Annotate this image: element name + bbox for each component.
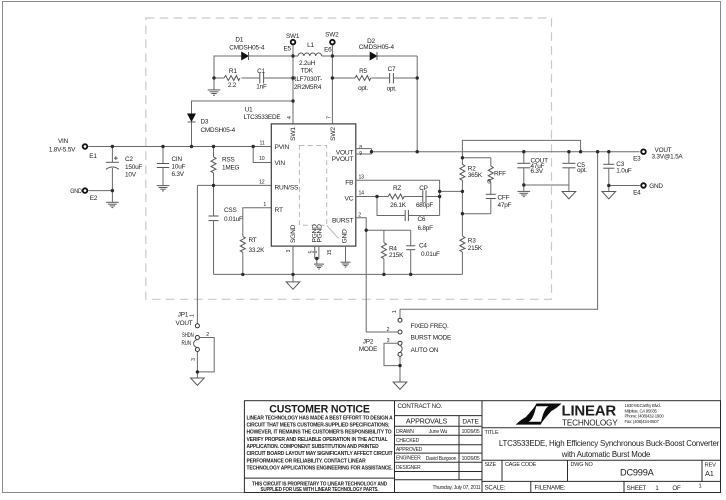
svg-text:14: 14 <box>359 191 365 197</box>
svg-text:4: 4 <box>287 116 293 119</box>
svg-text:10uF: 10uF <box>172 164 186 171</box>
svg-text:R1: R1 <box>229 68 237 75</box>
svg-text:2R2M5R4: 2R2M5R4 <box>294 84 322 91</box>
svg-text:REV: REV <box>705 463 717 469</box>
capacitor CP 680pF <box>416 185 440 209</box>
svg-text:CMDSH05-4: CMDSH05-4 <box>359 44 395 51</box>
svg-text:TECHNOLOGY APPLICATIONS ENGINE: TECHNOLOGY APPLICATIONS ENGINEERING FOR … <box>247 466 393 472</box>
capacitor COUT 47uF 6.3V <box>517 152 548 185</box>
svg-text:L1: L1 <box>307 42 314 49</box>
wire: RT pin line <box>243 208 271 237</box>
svg-text:with Automatic Burst Mode: with Automatic Burst Mode <box>561 450 651 459</box>
svg-text:0.01uF: 0.01uF <box>421 251 440 258</box>
svg-text:10/26/05: 10/26/05 <box>462 456 480 462</box>
capacitor C1 1nF <box>256 68 267 91</box>
wire: RUN/SS line y=185.4 <box>197 184 271 186</box>
svg-text:APPROVED: APPROVED <box>396 447 423 453</box>
diode D2 CMDSH05-4 <box>332 38 417 60</box>
ground (triangle) below C3 <box>602 186 616 199</box>
svg-text:SUPPLIED FOR USE WITH LINEAR T: SUPPLIED FOR USE WITH LINEAR TECHNOLOGY … <box>261 487 379 493</box>
ground (earth) below COUT <box>518 185 531 197</box>
U1 exposed pad dashed outline <box>299 146 338 239</box>
test point E6 / SW2 <box>324 32 339 124</box>
svg-text:APPLICATION. COMPONENT SUBSTI: APPLICATION. COMPONENT SUBSTITUTION AND … <box>247 444 379 450</box>
svg-text:June Wu: June Wu <box>429 429 448 435</box>
svg-text:1: 1 <box>655 486 659 492</box>
svg-text:1MEG: 1MEG <box>222 165 240 172</box>
svg-text:SW1: SW1 <box>286 33 300 40</box>
svg-text:D1: D1 <box>235 37 243 44</box>
diode D3 CMDSH05-4 <box>188 114 236 147</box>
svg-text:TECHNOLOGY: TECHNOLOGY <box>562 418 618 427</box>
svg-text:CIRCUIT THAT MEETS CUSTOMER-SU: CIRCUIT THAT MEETS CUSTOMER-SUPPLIED SPE… <box>247 423 390 429</box>
svg-text:ENGINEER: ENGINEER <box>396 456 421 462</box>
svg-text:CP: CP <box>419 185 427 192</box>
svg-text:E5: E5 <box>283 46 291 53</box>
svg-text:6.3V: 6.3V <box>531 168 544 175</box>
wire: VIN pin drop x=253.2 <box>253 147 271 163</box>
capacitor CFF 47pF <box>486 194 512 213</box>
ground (earth) below CIN <box>157 186 170 191</box>
svg-text:SW1: SW1 <box>290 127 297 141</box>
resistor RSS 1MEG <box>211 147 240 186</box>
svg-text:MODE: MODE <box>359 346 377 353</box>
svg-text:E1: E1 <box>89 153 97 160</box>
wire: R4/C4 top rail y=230.2 <box>366 229 411 231</box>
svg-text:DESIGNER: DESIGNER <box>396 465 421 471</box>
wire: CFF bottom to FB column <box>462 213 490 215</box>
svg-text:RT: RT <box>249 237 257 244</box>
svg-text:3: 3 <box>387 338 390 344</box>
wire: R2 top to RFF branch <box>462 157 490 159</box>
svg-text:U1: U1 <box>245 107 253 114</box>
svg-text:SIZE: SIZE <box>485 462 497 468</box>
svg-text:LTC3533EDE: LTC3533EDE <box>244 114 281 121</box>
svg-text:SGND: SGND <box>290 224 297 243</box>
svg-text:E4: E4 <box>633 190 641 197</box>
svg-text:R3: R3 <box>468 237 476 244</box>
svg-text:opt.: opt. <box>387 85 397 92</box>
resistor RZ 26.1K <box>388 185 423 209</box>
svg-text:215K: 215K <box>468 245 483 252</box>
resistor R2 365K <box>460 158 483 192</box>
svg-text:E2: E2 <box>90 195 98 202</box>
terminal E3 VOUT <box>633 147 683 163</box>
svg-text:VERIFY PROPER AND RELIABLE OPE: VERIFY PROPER AND RELIABLE OPERATION IN … <box>247 437 389 443</box>
terminal E4 GND <box>633 183 663 197</box>
svg-text:13: 13 <box>359 174 365 180</box>
capacitor CSS 0.01uF <box>209 185 243 274</box>
test point E5 / SW1 <box>283 33 299 124</box>
wire: VC pin line <box>356 196 388 198</box>
svg-text:CAGE CODE: CAGE CODE <box>505 462 537 468</box>
capacitor C7 opt. <box>387 66 397 92</box>
svg-text:PGND: PGND <box>317 224 324 243</box>
resistor RT 33.2K <box>240 236 265 274</box>
svg-text:PVIN: PVIN <box>275 144 290 151</box>
svg-text:GND: GND <box>649 183 663 190</box>
svg-text:CHECKED: CHECKED <box>396 438 420 444</box>
wire: SW1 node to D3 <box>192 101 294 114</box>
svg-text:RUN: RUN <box>181 340 191 347</box>
wire: VOUT/PVOUT pin stubs 8,9 <box>356 149 372 154</box>
resistor R4 215K <box>381 230 404 274</box>
svg-text:RFF: RFF <box>494 171 506 178</box>
svg-text:SW2: SW2 <box>330 127 337 141</box>
svg-text:E3: E3 <box>633 155 641 162</box>
ground (earth) below C2 <box>106 191 119 208</box>
svg-text:GND: GND <box>70 188 82 195</box>
svg-text:CIN: CIN <box>172 156 183 163</box>
svg-text:VOUT: VOUT <box>176 320 193 327</box>
svg-text:DATE: DATE <box>462 418 479 425</box>
resistor R3 215K <box>460 214 483 275</box>
scale / filename / sheet row <box>482 481 721 492</box>
svg-text:LINEAR: LINEAR <box>562 403 617 419</box>
svg-text:CSS: CSS <box>224 207 237 214</box>
jumper JP2 MODE <box>359 309 451 382</box>
svg-text:365K: 365K <box>468 172 483 179</box>
resistor R5 opt. <box>355 68 371 92</box>
svg-text:SW2: SW2 <box>325 32 339 39</box>
ground (triangle) below C5 <box>562 192 576 199</box>
capacitor C2 150uF 10V (polarized) <box>106 147 143 191</box>
resistor RFF 0 <box>487 158 506 195</box>
wire: FB pin line <box>356 180 440 215</box>
svg-text:A1: A1 <box>705 469 714 478</box>
capacitor C5 opt. <box>562 152 587 192</box>
svg-text:C6: C6 <box>418 216 426 223</box>
svg-text:SHDN: SHDN <box>182 332 194 339</box>
contract / approvals column <box>395 403 483 491</box>
svg-text:10/26/05: 10/26/05 <box>462 429 480 435</box>
svg-text:3: 3 <box>191 358 197 361</box>
U1 pin numbers <box>259 116 364 255</box>
svg-text:6.3V: 6.3V <box>172 171 185 178</box>
Linear Technology logo <box>516 403 665 427</box>
svg-text:JP1: JP1 <box>178 312 189 319</box>
wire: VIN rail y=146.5 <box>89 146 272 148</box>
svg-text:10V: 10V <box>125 171 137 178</box>
svg-text:11: 11 <box>260 140 265 146</box>
capacitor C6 6.8pF (parallel branch) <box>377 197 440 233</box>
svg-text:0.01uF: 0.01uF <box>224 216 243 223</box>
svg-text:150uF: 150uF <box>125 164 142 171</box>
ground (triangle) below JP1 <box>191 378 205 385</box>
terminal E2 GND <box>70 188 98 202</box>
svg-text:6: 6 <box>313 250 319 253</box>
svg-text:opt.: opt. <box>577 167 587 174</box>
svg-text:RZ: RZ <box>393 185 401 192</box>
svg-text:opt.: opt. <box>358 85 368 92</box>
svg-text:FB: FB <box>345 179 354 186</box>
demo board dashed outline <box>146 18 552 299</box>
svg-text:1.8V-5.5V: 1.8V-5.5V <box>49 146 76 153</box>
svg-text:1.0uF: 1.0uF <box>616 167 632 174</box>
capacitor CIN 10uF 6.3V <box>157 147 186 186</box>
svg-text:C1: C1 <box>257 68 265 75</box>
svg-text:GND: GND <box>342 229 349 243</box>
ground (earth) at D1/R1 node <box>208 78 221 95</box>
svg-text:BURST MODE: BURST MODE <box>411 335 452 342</box>
svg-text:47pF: 47pF <box>498 202 512 209</box>
svg-text:RLF7030T-: RLF7030T- <box>292 76 322 83</box>
wire: E2 to C2 bottom <box>89 190 113 192</box>
wire: VOUT sense loop (bump) <box>462 140 580 157</box>
svg-text:DRAWN: DRAWN <box>396 429 414 435</box>
svg-text:E6: E6 <box>324 47 332 54</box>
svg-text:1: 1 <box>190 314 196 317</box>
jumper JP1 VOUT/SHDN-RUN <box>176 312 215 378</box>
svg-text:12: 12 <box>259 179 265 185</box>
svg-text:2: 2 <box>387 327 390 333</box>
inductor L1 2.2uH <box>292 42 332 91</box>
svg-text:CONTRACT NO.: CONTRACT NO. <box>398 403 443 410</box>
svg-text:SHEET: SHEET <box>627 485 647 492</box>
svg-text:APPROVALS: APPROVALS <box>406 417 448 426</box>
svg-text:RUN/SS: RUN/SS <box>275 185 300 192</box>
U1 pin names <box>275 127 355 244</box>
svg-text:LTC3533EDE, High Efficiency Sy: LTC3533EDE, High Efficiency Synchronous … <box>499 439 720 448</box>
svg-text:Thursday, July 07, 2011: Thursday, July 07, 2011 <box>432 485 480 491</box>
svg-text:680pF: 680pF <box>416 202 433 209</box>
svg-text:RT: RT <box>275 207 283 214</box>
wire: FB column mid <box>461 191 463 213</box>
wire: R1/C1 row y=78 <box>214 77 293 79</box>
svg-text:RSS: RSS <box>222 157 235 164</box>
wire: D2/snubber to VOUT rail x=417.2 <box>416 56 418 152</box>
svg-text:TITLE: TITLE <box>485 430 500 436</box>
capacitor C4 0.01uF <box>406 230 440 274</box>
title block frame <box>244 401 720 493</box>
op-amp/IC U1 LTC3533EDE body <box>244 107 356 247</box>
ground (triangle) below JP2 <box>393 382 407 389</box>
wire: D1 snubber top row y=56 <box>214 56 293 78</box>
svg-text:PERFORMANCE OR RELIABILITY. C: PERFORMANCE OR RELIABILITY. CONTACT LINE… <box>247 458 367 464</box>
svg-text:215K: 215K <box>389 252 404 259</box>
svg-text:FIXED FREQ.: FIXED FREQ. <box>411 323 449 330</box>
svg-text:CUSTOMER NOTICE: CUSTOMER NOTICE <box>269 403 370 415</box>
svg-text:D3: D3 <box>201 118 209 125</box>
svg-text:SCALE:: SCALE: <box>485 484 506 491</box>
wire: VOUT rail to JP2 pin1 (long) <box>400 152 598 310</box>
svg-text:AUTO ON: AUTO ON <box>411 347 439 354</box>
svg-text:TDK: TDK <box>301 68 314 75</box>
wire: bottom ground rail y=274.4 <box>214 273 463 275</box>
svg-text:C4: C4 <box>419 243 427 250</box>
svg-text:CFF: CFF <box>498 195 510 202</box>
wire: VOUT output rail y=151.7 <box>372 151 640 153</box>
svg-text:1: 1 <box>263 202 266 208</box>
svg-text:R5: R5 <box>359 68 367 75</box>
svg-text:1: 1 <box>698 483 701 489</box>
U1 SGND pin stub <box>292 246 294 274</box>
svg-text:33.2K: 33.2K <box>249 247 266 254</box>
wire: COUT to C5 bottom link <box>524 184 569 186</box>
svg-text:Fax: (408)434-0507: Fax: (408)434-0507 <box>625 419 660 424</box>
svg-text:7: 7 <box>326 116 332 119</box>
wire: C3/E4 ground link <box>609 185 640 187</box>
U1 GND pin stub + ground (earth) <box>341 246 351 267</box>
svg-text:1: 1 <box>392 310 398 313</box>
ground (triangle) at SGND rail <box>286 274 300 289</box>
diode D1 CMDSH05-4 <box>229 37 265 60</box>
svg-text:DWG NO: DWG NO <box>571 462 594 468</box>
svg-text:3.3V@1.5A: 3.3V@1.5A <box>652 154 684 161</box>
svg-text:26.1K: 26.1K <box>390 202 407 209</box>
svg-text:1nF: 1nF <box>256 83 267 90</box>
title cell <box>482 428 721 459</box>
svg-text:C7: C7 <box>388 66 396 73</box>
capacitor C3 1.0uF <box>603 152 632 186</box>
resistor R1 2.2 <box>224 68 240 89</box>
svg-text:HOWEVER, IT REMAINS THE CUSTOM: HOWEVER, IT REMAINS THE CUSTOMER'S RESPO… <box>247 430 393 436</box>
svg-text:CIRCUIT BOARD LAYOUT MAY SIGNI: CIRCUIT BOARD LAYOUT MAY SIGNIFICANTLY A… <box>247 451 394 457</box>
svg-text:CMDSH05-4: CMDSH05-4 <box>201 127 236 134</box>
terminal E1 VIN <box>49 138 97 160</box>
svg-text:OF: OF <box>672 485 681 492</box>
svg-text:C2: C2 <box>125 156 133 163</box>
customer notice box <box>244 403 394 493</box>
wire: FB node line <box>440 190 463 192</box>
svg-text:JP2: JP2 <box>363 339 374 346</box>
svg-text:CMDSH05-4: CMDSH05-4 <box>229 44 265 51</box>
svg-text:PVOUT: PVOUT <box>332 156 354 163</box>
svg-text:David Burgoon: David Burgoon <box>426 456 457 462</box>
svg-text:15: 15 <box>327 250 333 256</box>
svg-text:VC: VC <box>345 195 354 202</box>
svg-text:LINEAR TECHNOLOGY HAS MADE A B: LINEAR TECHNOLOGY HAS MADE A BEST EFFORT… <box>247 415 394 421</box>
svg-text:3: 3 <box>286 250 292 253</box>
svg-text:VIN: VIN <box>275 160 286 167</box>
size / cage / dwg no / rev row <box>482 460 721 481</box>
svg-text:2: 2 <box>206 332 209 338</box>
svg-text:FILENAME:: FILENAME: <box>535 484 566 491</box>
wire: BURST pin line down to JP2 <box>356 218 366 332</box>
svg-text:DC999A: DC999A <box>620 467 655 477</box>
svg-text:8: 8 <box>359 145 362 151</box>
wire: R5/C7 row y=78 <box>332 77 417 79</box>
svg-text:VIN: VIN <box>58 138 69 145</box>
svg-text:10: 10 <box>259 156 265 162</box>
svg-text:6.8pF: 6.8pF <box>418 225 434 232</box>
svg-text:2.2uH: 2.2uH <box>299 60 316 67</box>
svg-text:2.2: 2.2 <box>228 82 237 89</box>
U1 PGND pin stubs + ground (earth) <box>314 246 324 269</box>
wire: RUN/SS to JP1 <box>196 185 198 323</box>
svg-text:BURST: BURST <box>332 217 354 224</box>
